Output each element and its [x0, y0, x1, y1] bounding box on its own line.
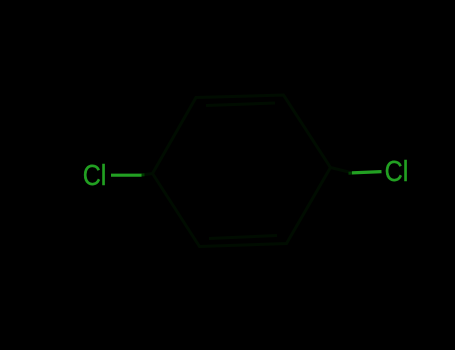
bond Cl-C1 (left, bright)	[111, 174, 142, 177]
dark stub of right C-Cl bond	[331, 168, 353, 173]
benzene ring	[153, 95, 331, 247]
double bond inner line (bottom)	[209, 236, 277, 239]
faint fade tail of left bond	[141, 173, 145, 176]
dark stub of left C-Cl bond	[143, 174, 153, 175]
double bond inner line (top)	[206, 103, 275, 106]
bond C4-Cl (right, bright)	[352, 172, 382, 173]
faint fade head of right bond	[349, 172, 354, 175]
svg-text:Cl: Cl	[83, 159, 107, 191]
svg-text:Cl: Cl	[385, 156, 409, 188]
